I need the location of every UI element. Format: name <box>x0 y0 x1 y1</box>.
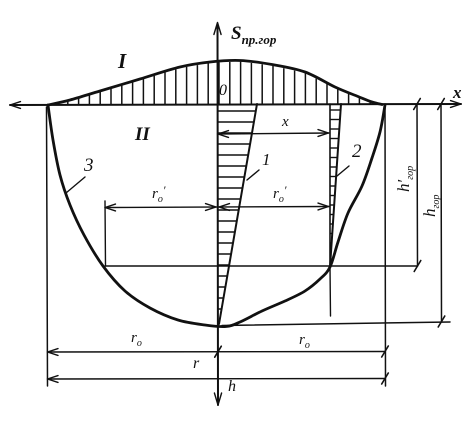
dimension r_o' left and right <box>105 203 329 211</box>
label II <box>135 125 150 144</box>
line 2: slanted right edge of strip 2 <box>330 104 341 267</box>
label r_o' left <box>152 184 165 205</box>
extension tick at x=105 <box>104 201 107 266</box>
hatching strip 2 (horizontal) <box>330 110 341 243</box>
line 1: slanted boundary of central hatched strip <box>219 104 257 324</box>
label S_pr.gor <box>231 24 276 46</box>
level line at bowl bottom (h_gor depth) <box>222 322 450 326</box>
pointer for label 3 <box>66 177 85 193</box>
label 2 <box>352 142 362 161</box>
dimension h'_gor <box>414 99 421 272</box>
label h'_gor rotated <box>395 166 416 192</box>
label r_o' right <box>273 184 286 205</box>
label 3 <box>84 156 94 175</box>
label I <box>118 51 126 72</box>
label r <box>193 356 199 372</box>
label r_o bottom right <box>299 333 310 351</box>
label x dimension <box>282 115 289 130</box>
curve 3: subsidence trough bowl <box>48 105 385 327</box>
strip 2 left edge (vertical at x=330) <box>329 104 331 267</box>
curve: horizontal displacement bell curve (region I boundary) <box>48 60 382 105</box>
label x axis <box>453 84 462 101</box>
pointer for label 2 <box>337 166 349 176</box>
pointer for label 1 <box>247 170 259 180</box>
extension below junction at x=330 <box>329 267 332 316</box>
label h_gor rotated <box>421 195 442 217</box>
label r_o bottom left <box>131 331 142 349</box>
label 1 <box>262 151 271 168</box>
dimension x <box>218 130 330 138</box>
right extension line <box>384 104 387 386</box>
dimension r <box>48 373 389 384</box>
level line at h'_gor depth <box>105 265 418 267</box>
vertical axis S (up) and h (down) <box>214 23 222 406</box>
label 0 at origin <box>219 83 227 99</box>
hatching region I <box>68 62 370 105</box>
x axis <box>10 101 461 109</box>
dimension h_gor <box>438 99 445 328</box>
left extension line <box>47 107 48 386</box>
label h <box>228 379 236 395</box>
dimension r_o left / right <box>48 346 389 357</box>
hatching strip 1 (horizontal) <box>218 111 256 309</box>
